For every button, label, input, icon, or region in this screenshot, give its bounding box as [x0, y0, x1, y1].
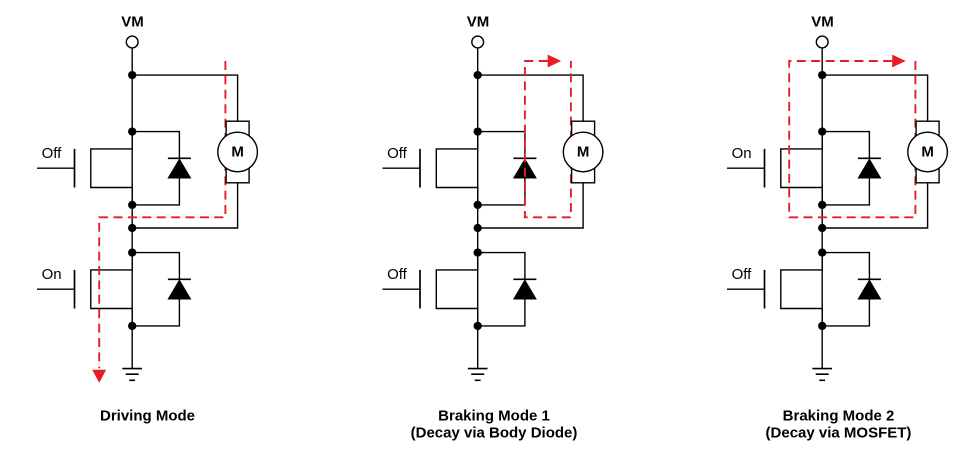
- diode body-diode leads circuit 2 low-side Q4: [478, 253, 525, 326]
- svg-text:Driving Mode: Driving Mode: [100, 408, 195, 425]
- ground symbol circuit 2: [468, 369, 488, 381]
- motor M label circuit 2: [577, 143, 590, 160]
- transistor high-side Q1 MOSFET body circuit 1: [91, 132, 132, 205]
- label "Off" gate state circuit 1 high-side Q1: [42, 145, 63, 162]
- label caption circuit 3: [766, 408, 912, 442]
- diode triangle circuit 1 low-side Q2: [167, 279, 191, 299]
- svg-text:VM: VM: [467, 13, 490, 30]
- wire main vertical circuit 3: [821, 75, 823, 326]
- VM terminal circle circuit 1: [126, 36, 138, 48]
- motor M circle circuit 2: [563, 132, 603, 172]
- svg-text:VM: VM: [121, 13, 144, 30]
- current direction arrow right circuit 2: [548, 55, 562, 68]
- svg-text:(Decay via MOSFET): (Decay via MOSFET): [766, 424, 912, 441]
- label caption circuit 2: [411, 408, 578, 442]
- label "Off" gate state circuit 2 high-side Q3: [387, 145, 408, 162]
- label "Off" gate state circuit 2 low-side Q4: [387, 266, 408, 283]
- wire source to ground circuit 3: [821, 326, 823, 369]
- motor M circle circuit 1: [218, 132, 258, 172]
- svg-text:On: On: [42, 266, 62, 283]
- label "On" gate state circuit 3 high-side Q5: [732, 145, 752, 162]
- ground symbol circuit 3: [812, 369, 832, 381]
- wire top rail to motor circuit 3: [822, 75, 927, 121]
- node VM terminal label circuit 3: [811, 13, 834, 30]
- motor M terminal rectangles circuit 3: [916, 121, 939, 183]
- wire red dashed current loop circuit 2: [525, 61, 571, 217]
- transistor low-side Q4 gate bar circuit 2: [419, 270, 421, 309]
- wire top rail to motor circuit 2: [478, 75, 583, 121]
- wire main vertical circuit 1: [131, 75, 133, 326]
- label "Off" gate state circuit 3 low-side Q6: [732, 266, 753, 283]
- label caption circuit 1: [100, 408, 195, 425]
- VM terminal circle circuit 3: [816, 36, 828, 48]
- motor M circle circuit 3: [908, 132, 948, 172]
- wire gate lead circuit 2 high-side Q3: [383, 167, 421, 169]
- svg-text:M: M: [231, 143, 244, 160]
- ground symbol circuit 1: [122, 369, 142, 381]
- svg-text:M: M: [577, 143, 590, 160]
- svg-text:On: On: [732, 145, 752, 162]
- wire red dashed current loop circuit 3: [789, 61, 915, 217]
- wire red dashed current path circuit 1: [99, 61, 225, 368]
- transistor high-side Q3 gate bar circuit 2: [419, 149, 421, 188]
- svg-text:Braking Mode 1: Braking Mode 1: [438, 408, 550, 425]
- wire top rail to motor circuit 1: [132, 75, 237, 121]
- node junction dots circuit 2: [474, 71, 482, 330]
- transistor low-side Q2 gate bar circuit 1: [74, 270, 76, 309]
- transistor high-side Q5 MOSFET body circuit 3: [781, 132, 822, 205]
- svg-text:Off: Off: [732, 266, 753, 283]
- wire VM to top rail circuit 1: [131, 48, 133, 75]
- wire motor bottom to mid node circuit 1: [132, 183, 237, 228]
- diode body-diode leads circuit 3 low-side Q6: [822, 253, 869, 326]
- wire gate lead circuit 1 high-side Q1: [37, 167, 75, 169]
- diode triangle circuit 2 high-side Q3: [513, 158, 537, 178]
- diode cathode bar circuit 3 high-side Q5: [858, 157, 881, 159]
- svg-text:M: M: [921, 143, 934, 160]
- svg-text:Off: Off: [42, 145, 63, 162]
- transistor high-side Q5 gate bar circuit 3: [764, 149, 766, 188]
- wire gate lead circuit 3 low-side Q6: [727, 288, 765, 290]
- node junction dots circuit 1: [128, 71, 136, 330]
- transistor high-side Q3 MOSFET body circuit 2: [436, 132, 477, 205]
- node VM terminal label circuit 1: [121, 13, 144, 30]
- wire gate lead circuit 1 low-side Q2: [37, 288, 75, 290]
- wire VM to top rail circuit 2: [477, 48, 479, 75]
- motor M terminal rectangles circuit 1: [226, 121, 249, 183]
- diode triangle circuit 3 high-side Q5: [857, 158, 881, 178]
- diode cathode bar circuit 1 high-side Q1: [168, 157, 191, 159]
- diode triangle circuit 2 low-side Q4: [513, 279, 537, 299]
- diode cathode bar circuit 2 low-side Q4: [513, 278, 536, 280]
- svg-text:Braking Mode 2: Braking Mode 2: [783, 408, 895, 425]
- transistor low-side Q2 MOSFET body circuit 1: [91, 253, 132, 326]
- svg-text:(Decay via Body Diode): (Decay via Body Diode): [411, 424, 578, 441]
- diode cathode bar circuit 3 low-side Q6: [858, 278, 881, 280]
- diode cathode bar circuit 2 high-side Q3: [513, 157, 536, 159]
- VM terminal circle circuit 2: [472, 36, 484, 48]
- node VM terminal label circuit 2: [467, 13, 490, 30]
- transistor low-side Q6 gate bar circuit 3: [764, 270, 766, 309]
- transistor high-side Q1 gate bar circuit 1: [74, 149, 76, 188]
- motor M label circuit 3: [921, 143, 934, 160]
- wire motor bottom to mid node circuit 3: [822, 183, 927, 228]
- current direction arrow down circuit 1: [92, 370, 106, 383]
- diode body-diode leads circuit 1 low-side Q2: [132, 253, 179, 326]
- svg-text:VM: VM: [811, 13, 834, 30]
- diode body-diode leads circuit 2 high-side Q3: [478, 132, 525, 205]
- wire gate lead circuit 3 high-side Q5: [727, 167, 765, 169]
- label "On" gate state circuit 1 low-side Q2: [42, 266, 62, 283]
- wire VM to top rail circuit 3: [821, 48, 823, 75]
- motor M label circuit 1: [231, 143, 244, 160]
- diode triangle circuit 3 low-side Q6: [857, 279, 881, 299]
- current direction arrow right circuit 3: [892, 55, 906, 68]
- wire gate lead circuit 2 low-side Q4: [383, 288, 421, 290]
- diode cathode bar circuit 1 low-side Q2: [168, 278, 191, 280]
- diode body-diode leads circuit 1 high-side Q1: [132, 132, 179, 205]
- wire main vertical circuit 2: [477, 75, 479, 326]
- diode body-diode leads circuit 3 high-side Q5: [822, 132, 869, 205]
- svg-text:Off: Off: [387, 266, 408, 283]
- wire source to ground circuit 2: [477, 326, 479, 369]
- wire source to ground circuit 1: [131, 326, 133, 369]
- svg-text:Off: Off: [387, 145, 408, 162]
- wire motor bottom to mid node circuit 2: [478, 183, 583, 228]
- motor M terminal rectangles circuit 2: [572, 121, 595, 183]
- diode triangle circuit 1 high-side Q1: [167, 158, 191, 178]
- transistor low-side Q6 MOSFET body circuit 3: [781, 253, 822, 326]
- node junction dots circuit 3: [818, 71, 826, 330]
- transistor low-side Q4 MOSFET body circuit 2: [436, 253, 477, 326]
